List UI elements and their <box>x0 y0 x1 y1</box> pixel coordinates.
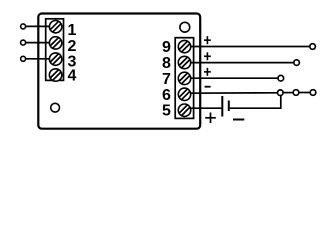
output terminal circle 9 <box>310 44 316 50</box>
wire link A-B <box>284 92 293 94</box>
minus label output 6 <box>205 86 211 88</box>
wire input 2 <box>25 42 50 44</box>
screw terminal 7 <box>178 72 190 84</box>
terminal block TB1 (left) <box>46 19 64 81</box>
svg-text:5: 5 <box>162 103 171 120</box>
wire input 1 <box>25 25 50 27</box>
plus label output 7 <box>204 68 211 76</box>
plus label output 8 <box>204 52 211 60</box>
wire output 5 to battery <box>190 107 221 109</box>
screw terminal 9 <box>178 40 190 52</box>
screw terminal 4 <box>49 69 61 81</box>
wire link B-C <box>299 92 309 94</box>
screw terminal 5 <box>178 104 190 116</box>
mounting hole top-right <box>180 22 190 32</box>
battery BT1 positive plate <box>221 96 223 117</box>
svg-text:7: 7 <box>162 71 171 88</box>
junction circle A (row 6) <box>278 90 284 96</box>
svg-text:1: 1 <box>68 22 77 39</box>
terminal circle C (row 6) <box>310 90 316 96</box>
battery plus label <box>205 113 216 124</box>
wire output 9 <box>190 46 309 48</box>
input terminal circle 1 <box>21 24 26 29</box>
svg-text:8: 8 <box>162 55 171 72</box>
output terminal circle 8 <box>294 60 300 66</box>
wire battery to junction <box>230 96 281 108</box>
wire output 8 <box>190 62 293 64</box>
screw terminal 8 <box>178 56 190 68</box>
terminal circle B (row 6) <box>293 90 299 96</box>
terminal block TB2 (right) <box>175 38 193 119</box>
input terminal circle 2 <box>21 40 26 45</box>
screw terminal 2 <box>49 37 61 49</box>
svg-text:4: 4 <box>68 68 77 85</box>
svg-text:2: 2 <box>68 38 77 55</box>
screw terminal 6 <box>178 88 190 100</box>
battery BT1 negative plate <box>228 101 230 112</box>
input terminal circle 3 <box>21 56 26 61</box>
screw terminal 3 <box>49 53 61 65</box>
wire output 7 <box>190 77 277 79</box>
svg-text:9: 9 <box>162 39 171 56</box>
svg-text:6: 6 <box>162 87 171 104</box>
plus label output 9 <box>204 36 211 44</box>
screw terminal 1 <box>49 21 61 33</box>
output terminal circle 7 <box>278 75 284 81</box>
wire output 6 <box>190 92 277 94</box>
module box outline <box>38 14 200 129</box>
mounting hole bottom-left <box>51 103 60 112</box>
battery minus label <box>233 119 244 121</box>
wire input 3 <box>25 58 50 60</box>
